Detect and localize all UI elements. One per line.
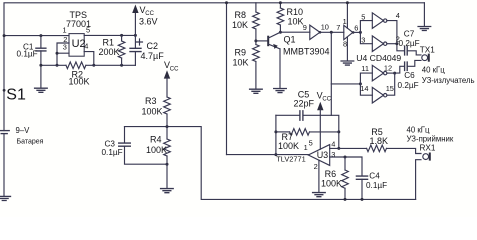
svg-text:9–V: 9–V [16, 126, 31, 135]
svg-text:40 кГц: 40 кГц [407, 126, 430, 135]
svg-text:5: 5 [86, 25, 90, 34]
svg-text:10: 10 [321, 23, 329, 32]
svg-text:100K: 100K [321, 179, 342, 189]
svg-text:1.8K: 1.8K [370, 136, 389, 146]
svg-text:R3: R3 [145, 96, 157, 106]
svg-text:4: 4 [84, 41, 88, 50]
svg-text:100K: 100K [69, 76, 90, 86]
svg-text:14: 14 [360, 84, 368, 93]
svg-text:U3: U3 [317, 150, 329, 160]
svg-text:0.1µF: 0.1µF [17, 50, 38, 59]
svg-text:C2: C2 [147, 41, 159, 51]
svg-text:U4 CD4049: U4 CD4049 [356, 53, 401, 63]
svg-text:R9: R9 [235, 48, 247, 58]
svg-text:22pF: 22pF [294, 99, 315, 109]
svg-text:C7: C7 [404, 30, 415, 39]
svg-text:0.1µF: 0.1µF [366, 181, 387, 190]
svg-text:4.7µF: 4.7µF [141, 51, 165, 61]
svg-text:S1: S1 [6, 86, 26, 103]
svg-text:6: 6 [354, 23, 358, 32]
svg-text:3: 3 [63, 43, 67, 52]
svg-text:5: 5 [309, 139, 313, 148]
svg-text:7: 7 [336, 23, 340, 32]
svg-text:2: 2 [314, 162, 318, 171]
svg-text:3: 3 [361, 35, 365, 44]
svg-text:100K: 100K [278, 141, 299, 151]
svg-text:4: 4 [396, 11, 400, 20]
svg-text:1: 1 [304, 143, 308, 152]
svg-text:10K: 10K [232, 20, 248, 30]
svg-text:TLV2771: TLV2771 [276, 155, 305, 164]
svg-text:C6: C6 [404, 71, 415, 80]
svg-text:CC: CC [170, 66, 179, 72]
svg-text:5: 5 [361, 13, 365, 22]
svg-text:11: 11 [361, 64, 369, 73]
svg-text:C4: C4 [369, 172, 380, 181]
svg-text:R8: R8 [235, 10, 247, 20]
svg-text:100K: 100K [146, 145, 167, 155]
svg-text:4: 4 [331, 139, 335, 148]
svg-text:УЗ-приймник: УЗ-приймник [407, 135, 454, 144]
svg-text:0.1µF: 0.1µF [102, 148, 123, 157]
svg-text:1: 1 [63, 25, 67, 34]
svg-text:1: 1 [343, 17, 347, 26]
svg-text:10K: 10K [288, 17, 304, 27]
svg-text:C3: C3 [105, 139, 116, 148]
svg-text:10K: 10K [233, 58, 249, 68]
svg-text:Батарея: Батарея [17, 138, 44, 145]
svg-text:TX1: TX1 [420, 46, 435, 55]
svg-text:40 кГц: 40 кГц [422, 66, 445, 75]
svg-text:CC: CC [322, 97, 331, 103]
svg-text:RX1: RX1 [420, 144, 436, 153]
svg-text:15: 15 [386, 84, 394, 93]
svg-text:Q1: Q1 [284, 35, 296, 45]
svg-text:12: 12 [384, 63, 392, 72]
svg-text:3.6V: 3.6V [139, 17, 158, 27]
svg-text:100K: 100K [142, 107, 163, 117]
svg-text:MMBT3904: MMBT3904 [283, 47, 330, 57]
svg-text:9: 9 [303, 23, 307, 32]
svg-text:R6: R6 [325, 169, 337, 179]
svg-text:R4: R4 [150, 135, 162, 145]
svg-text:200K: 200K [99, 47, 120, 57]
svg-text:8: 8 [343, 40, 347, 49]
svg-text:0.2µF: 0.2µF [398, 81, 419, 90]
svg-text:0.2µF: 0.2µF [399, 39, 420, 48]
svg-text:УЗ-излучатель: УЗ-излучатель [422, 76, 475, 85]
